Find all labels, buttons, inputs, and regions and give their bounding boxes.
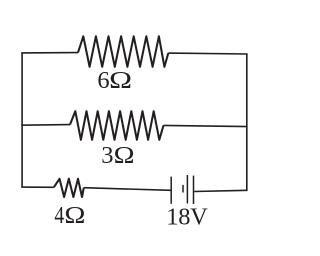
svg-text:Ω: Ω — [109, 67, 132, 94]
battery plate tall 2 — [186, 175, 188, 204]
svg-text:18V: 18V — [166, 203, 208, 230]
resistor R1 6-ohm zigzag — [78, 36, 168, 67]
wire: right vertical rail — [246, 54, 248, 190]
svg-text:4: 4 — [54, 201, 64, 229]
wire: top branch right segment — [168, 52, 247, 55]
resistor R2 3-ohm zigzag — [70, 111, 164, 140]
svg-text:Ω: Ω — [114, 142, 135, 169]
wire: top branch left segment — [21, 52, 78, 54]
wire: bottom branch middle segment — [84, 188, 171, 191]
wire: middle branch left segment — [21, 124, 70, 127]
battery plate tall 3 — [193, 176, 195, 204]
svg-text:3: 3 — [101, 142, 113, 169]
battery plate short — [182, 185, 184, 193]
svg-text:6: 6 — [97, 67, 109, 94]
wire: middle branch right segment — [164, 125, 248, 126]
resistor R3 4-ohm zigzag — [54, 179, 84, 197]
svg-text:Ω: Ω — [64, 201, 85, 229]
battery plate tall 1 — [170, 177, 172, 204]
battery B1 plates — [171, 175, 193, 204]
wire: bottom branch left segment — [21, 186, 54, 188]
wire: bottom branch right segment — [194, 190, 247, 191]
wire: left vertical rail — [21, 53, 23, 187]
